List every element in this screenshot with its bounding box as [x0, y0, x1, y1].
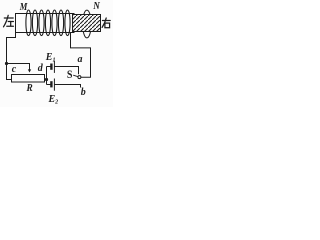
wire E2 to contact b — [54, 85, 80, 88]
coil turn 5 — [52, 10, 57, 36]
svg-text:a: a — [78, 54, 83, 65]
switch S blade — [73, 75, 78, 77]
wire switch pole to coil right end — [71, 33, 91, 78]
svg-text:S: S — [67, 69, 73, 81]
battery E2 — [47, 84, 51, 86]
coil turn 3 — [39, 10, 44, 36]
label zuo (left) — [4, 15, 14, 26]
wire battery branch vertical — [46, 67, 48, 85]
coil end turn around core — [83, 10, 92, 38]
coil turn 4 — [45, 10, 50, 36]
svg-text:R: R — [26, 83, 33, 94]
wire from coil left end down to node c area — [7, 33, 16, 80]
coil turn 7 — [65, 10, 70, 36]
solenoid coil frame — [16, 14, 75, 33]
junction node at c — [5, 62, 8, 65]
switch S pole — [78, 76, 81, 79]
svg-text:N: N — [92, 1, 100, 12]
wire resistor right to battery branch — [45, 79, 47, 81]
junction node at d branch — [45, 78, 48, 81]
label you (right) — [102, 18, 110, 28]
coil turn 2 — [32, 10, 37, 36]
battery E1 — [47, 66, 51, 68]
resistor R (rheostat box) — [12, 75, 45, 83]
coil turn 6 — [58, 10, 63, 36]
wire wiper feed (node to arrow) — [7, 64, 30, 70]
svg-text:c: c — [12, 64, 17, 75]
svg-text:M: M — [19, 2, 28, 13]
rheostat wiper arrow — [28, 69, 31, 72]
svg-text:b: b — [81, 87, 86, 98]
wire E1 to contact a — [54, 67, 78, 75]
iron core bar (hatched) — [73, 15, 101, 32]
coil turn 1 — [26, 10, 31, 36]
